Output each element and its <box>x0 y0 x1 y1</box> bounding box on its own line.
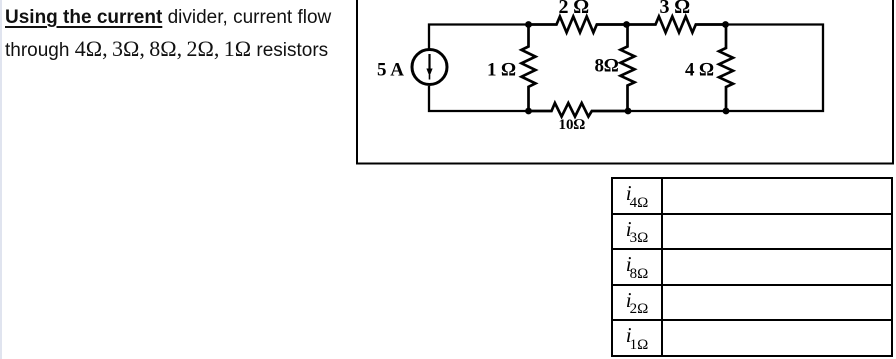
resistor R6 10ohm (horizontal bottom) <box>529 103 629 117</box>
svg-text:10Ω: 10Ω <box>559 117 586 133</box>
wire bottom-left from source to node D <box>429 86 529 111</box>
resistor R5 4ohm (vertical) <box>719 25 733 112</box>
svg-text:3 Ω: 3 Ω <box>660 0 690 18</box>
wire bottom between node E and node F <box>628 110 726 112</box>
node E junction dot <box>625 108 632 115</box>
question text <box>5 2 355 66</box>
svg-text:8Ω: 8Ω <box>595 56 620 77</box>
wire top between 2-ohm and node B <box>597 23 627 25</box>
node D junction dot <box>525 108 532 115</box>
resistor R3 3ohm (horizontal top) <box>627 17 726 33</box>
resistor R2 2ohm (horizontal top) <box>529 17 627 33</box>
node C junction dot <box>722 21 729 28</box>
current source I1 5A <box>412 50 447 85</box>
wire top-right from node C to right edge <box>726 25 824 112</box>
svg-text:4 Ω: 4 Ω <box>685 60 714 81</box>
node A junction dot <box>525 21 532 28</box>
node F junction dot <box>723 108 730 115</box>
svg-text:2 Ω: 2 Ω <box>559 0 589 18</box>
wire top between 3-ohm and node C <box>698 23 726 25</box>
resistor R4 8ohm (vertical) <box>621 25 635 112</box>
wire top-left from source to node A <box>429 25 529 49</box>
resistor R1 1ohm (vertical) <box>522 25 536 112</box>
node B junction dot <box>623 21 630 28</box>
left faint window edge <box>0 0 2 359</box>
svg-text:1 Ω: 1 Ω <box>487 60 516 81</box>
figure frame box <box>357 0 893 164</box>
svg-text:5 A: 5 A <box>377 60 404 81</box>
answer table <box>611 177 893 357</box>
